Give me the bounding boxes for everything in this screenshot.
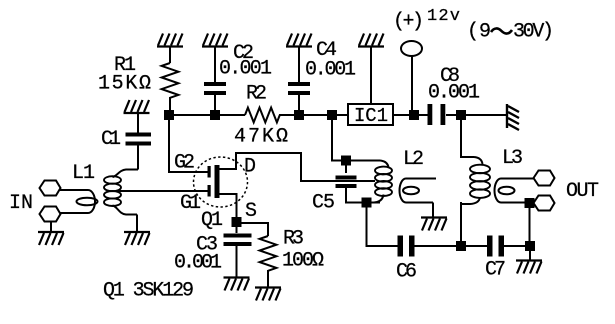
svg-text:12v: 12v — [427, 7, 460, 26]
svg-text:L2: L2 — [403, 148, 424, 171]
svg-text:15KΩ: 15KΩ — [98, 73, 151, 96]
svg-text:D: D — [244, 156, 256, 179]
svg-text:Q1 3SK129: Q1 3SK129 — [103, 280, 194, 303]
svg-text:IN: IN — [9, 192, 33, 215]
svg-text:0.001: 0.001 — [174, 252, 222, 275]
svg-text:0.001: 0.001 — [219, 58, 272, 81]
svg-text:C6: C6 — [396, 261, 417, 284]
svg-text:IC1: IC1 — [354, 105, 388, 127]
svg-text:(9: (9 — [467, 21, 491, 44]
svg-text:47KΩ: 47KΩ — [234, 126, 288, 149]
svg-text:(+): (+) — [393, 11, 424, 34]
svg-text:C1: C1 — [101, 128, 121, 151]
svg-text:100Ω: 100Ω — [282, 250, 324, 273]
svg-text:0.001: 0.001 — [305, 59, 356, 82]
svg-text:30V): 30V) — [513, 21, 554, 44]
svg-text:C7: C7 — [485, 259, 506, 282]
svg-text:S: S — [245, 200, 257, 223]
svg-text:OUT: OUT — [566, 180, 599, 203]
svg-text:L1: L1 — [72, 162, 95, 185]
svg-text:R3: R3 — [283, 228, 304, 251]
svg-text:0.001: 0.001 — [428, 82, 480, 105]
svg-text:R2: R2 — [246, 83, 267, 106]
svg-text:G2: G2 — [174, 152, 195, 175]
svg-text:C5: C5 — [312, 192, 335, 215]
svg-text:G1: G1 — [180, 192, 201, 215]
svg-text:L3: L3 — [502, 147, 523, 170]
svg-text:Q1: Q1 — [201, 209, 223, 232]
